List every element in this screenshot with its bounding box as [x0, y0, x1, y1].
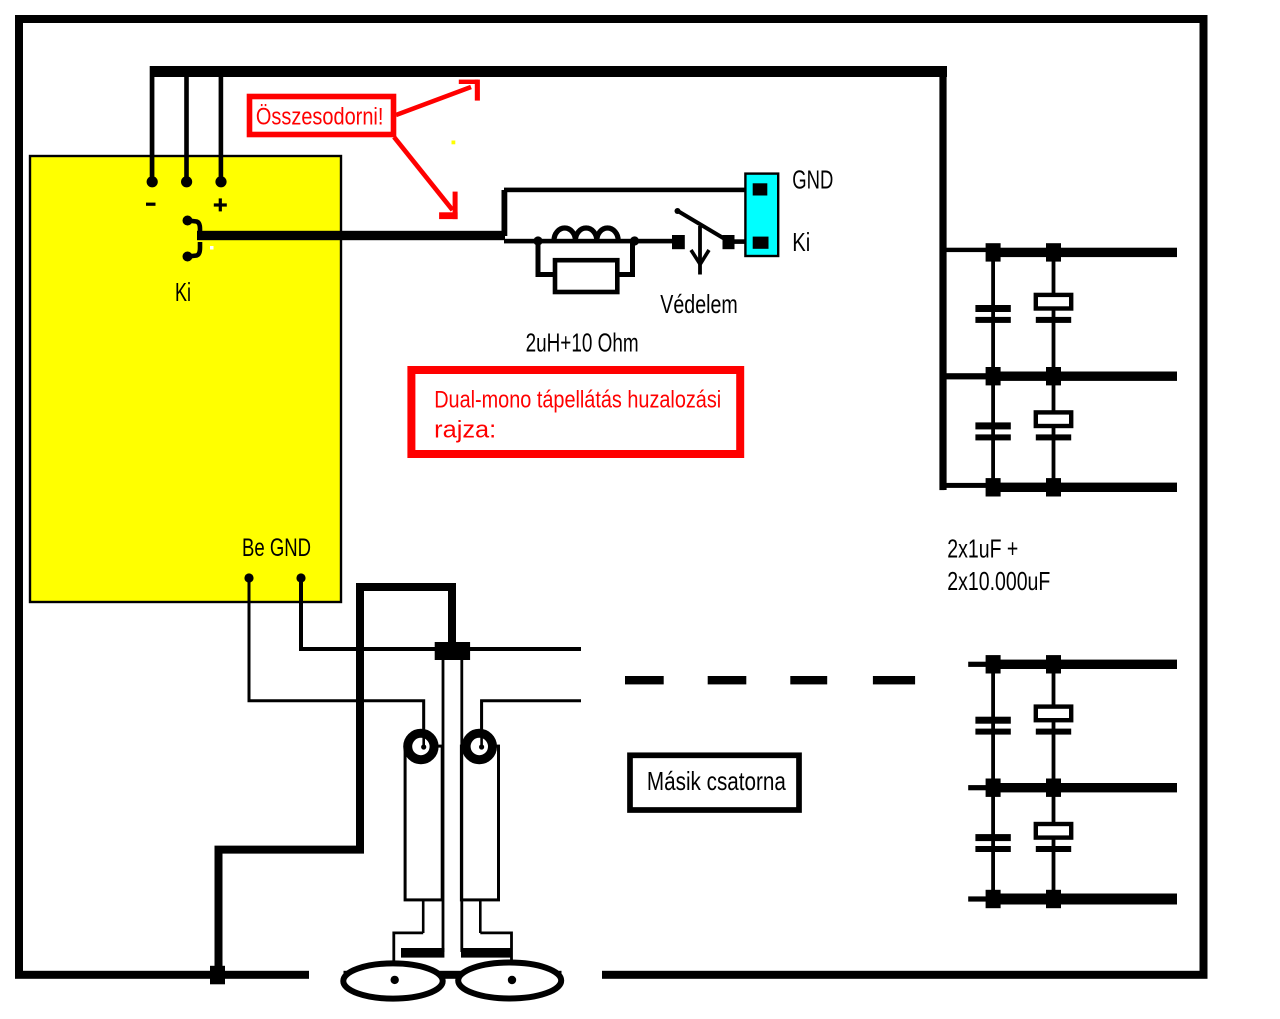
svg-text:Ki: Ki — [792, 227, 810, 257]
svg-text:2x10.000uF: 2x10.000uF — [947, 566, 1050, 596]
svg-text:2uH+10 Ohm: 2uH+10 Ohm — [526, 327, 639, 357]
svg-text:Másik csatorna: Másik csatorna — [647, 766, 786, 796]
svg-text:rajza:: rajza: — [434, 417, 496, 444]
svg-text:Be GND: Be GND — [242, 534, 311, 562]
svg-text:2x1uF +: 2x1uF + — [947, 534, 1018, 564]
svg-text:Összesodorni!: Összesodorni! — [256, 104, 384, 131]
svg-text:GND: GND — [792, 165, 833, 195]
svg-text:Dual-mono tápellátás huzalozás: Dual-mono tápellátás huzalozási — [434, 387, 721, 414]
svg-text:Védelem: Védelem — [660, 289, 737, 319]
svg-text:Ki: Ki — [175, 277, 191, 307]
